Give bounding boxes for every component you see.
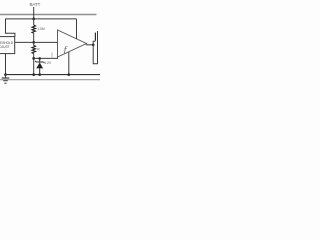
junction op-amp ground pin / rail xyxy=(67,73,70,76)
svg-text:R: R xyxy=(37,48,40,52)
resistor R2 xyxy=(32,45,36,53)
wire V+ rail to R1 xyxy=(33,19,35,25)
svg-text:1.0M: 1.0M xyxy=(37,27,45,31)
wire output node up jog xyxy=(93,41,95,45)
wire faint stub above input 2 xyxy=(51,52,53,58)
wire BATT vertical xyxy=(33,7,35,19)
svg-text:ƒ: ƒ xyxy=(63,46,68,56)
resistor R1 xyxy=(32,25,36,33)
threshold adjust block U1 xyxy=(0,37,15,54)
wire R1 to divider node xyxy=(33,33,35,45)
junction R2 / ground rail xyxy=(32,73,35,76)
wire op-amp output xyxy=(86,44,93,46)
junction zener tap xyxy=(38,57,41,60)
figure frame top line xyxy=(0,14,97,16)
capacitor plate (component clipped at edge) xyxy=(94,33,96,41)
op-amp U2 xyxy=(58,30,87,57)
svg-text:1.2V: 1.2V xyxy=(44,61,52,65)
wire op-amp bottom pin to ground rail xyxy=(68,52,70,75)
figure frame bottom line xyxy=(0,79,100,81)
svg-text:BATT: BATT xyxy=(30,2,41,7)
junction divider node / input wire 1 xyxy=(32,41,35,44)
svg-text:ADJUST: ADJUST xyxy=(0,45,10,49)
wire V+ rail xyxy=(6,18,77,20)
wire V+ rail to op-amp top pin xyxy=(76,19,78,39)
junction BATT / V+ rail xyxy=(32,18,35,21)
wire output node down loop xyxy=(93,31,97,64)
wire V+ rail to threshold box (jog) xyxy=(6,19,15,37)
wire ground rail xyxy=(6,74,101,76)
wire op-amp left edge stub xyxy=(57,57,59,59)
wire input 2 to op-amp xyxy=(34,57,58,59)
ground xyxy=(2,75,10,84)
wire box bottom to ground rail xyxy=(5,54,7,75)
wire input 1 from box to op-amp xyxy=(15,41,58,43)
wire R2 to ground rail xyxy=(33,54,35,75)
junction zener / ground rail xyxy=(38,73,41,76)
junction input wire 2 xyxy=(32,57,35,60)
junction output node xyxy=(92,43,95,46)
junction box drop / ground rail xyxy=(4,73,7,76)
zener diode D1 xyxy=(35,58,44,74)
